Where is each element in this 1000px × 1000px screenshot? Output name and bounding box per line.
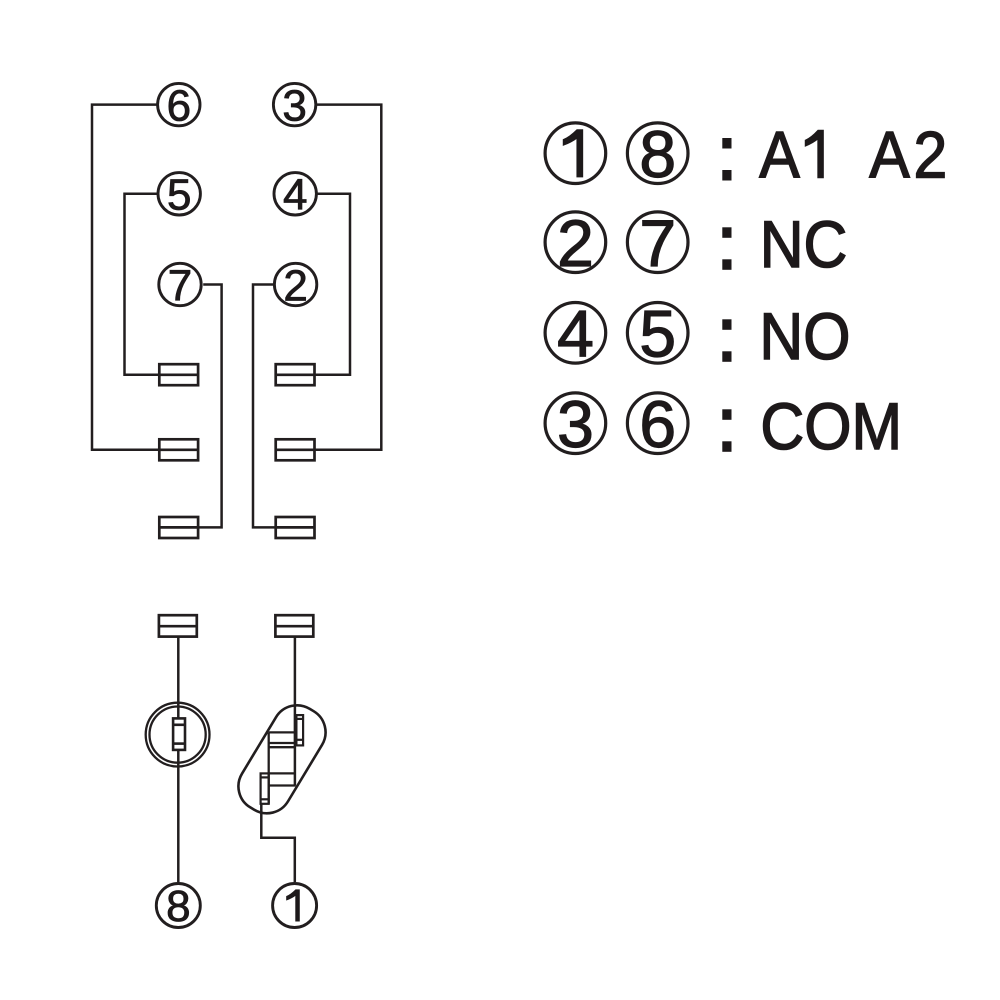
pin 3 [273, 81, 315, 130]
wire pin4 to NO-right contact [315, 194, 350, 375]
armature crossbar B [269, 742, 296, 744]
coil terminal contact (pin 1 side) [275, 615, 313, 636]
svg-text:NO: NO [759, 301, 850, 374]
svg-text:7: 7 [639, 206, 676, 280]
legend pin 7 badge [627, 206, 688, 280]
wire contact to armature [294, 637, 297, 786]
NC contact left (terminal 7) [159, 517, 198, 538]
NC contact right (terminal 2) [276, 517, 315, 538]
legend pin 8 badge [627, 117, 688, 191]
wire pin6 to COM-left contact [92, 105, 158, 450]
svg-text:COM: COM [760, 391, 902, 464]
pin 8 [156, 882, 200, 931]
svg-text:NC: NC [760, 209, 848, 282]
armature crossbar C [269, 772, 296, 774]
pin 6 [158, 81, 200, 130]
NO contact left (terminal 5) [159, 364, 198, 385]
svg-text:A: A [759, 119, 800, 192]
armature crossbar B2 [269, 746, 296, 748]
svg-text:6: 6 [639, 387, 676, 461]
NO contact right (terminal 4) [276, 364, 315, 385]
svg-text:5: 5 [639, 296, 676, 370]
coil terminal contact (pin 8 side) [159, 615, 197, 636]
legend row 2 label NC [722, 209, 847, 282]
svg-text:2: 2 [557, 206, 594, 280]
legend row 3 label NO [722, 301, 850, 374]
wire pin5 to NO-left contact [125, 194, 159, 375]
legend pin 2 badge [545, 206, 606, 280]
svg-text:A2: A2 [869, 119, 951, 192]
legend pin 3 badge [545, 387, 606, 461]
svg-text:5: 5 [167, 171, 191, 220]
svg-text:6: 6 [167, 81, 191, 130]
svg-text:8: 8 [166, 882, 190, 931]
coil fuse element [173, 718, 185, 750]
svg-text:4: 4 [557, 296, 594, 370]
wire pin2 to NC-right contact [253, 285, 275, 528]
svg-text:3: 3 [282, 81, 306, 130]
wire contact to coil [177, 637, 180, 719]
pin 2 [274, 261, 316, 310]
legend row 1 label A1 A2 [722, 119, 951, 192]
svg-text:8: 8 [639, 117, 676, 191]
wire coil to pin 8 [177, 750, 180, 882]
svg-text:3: 3 [557, 387, 594, 461]
wire armature to pin 1 [261, 804, 295, 882]
armature pin plate top (pin 1 side upper) [296, 715, 303, 745]
pin 7 [159, 261, 201, 310]
armature crossbar A [269, 731, 296, 733]
svg-text:4: 4 [283, 171, 307, 220]
pin 5 [158, 171, 200, 220]
wire pin7 to NC-left contact [199, 285, 222, 528]
legend pin 4 badge [545, 296, 606, 370]
armature crossbar D [269, 784, 296, 786]
armature pin plate bottom (lower) [261, 773, 269, 803]
svg-text:2: 2 [283, 261, 307, 310]
svg-text:7: 7 [168, 261, 192, 310]
legend row 4 label COM [722, 391, 902, 464]
legend pin 6 badge [627, 387, 688, 461]
coil K1 (double circle) [146, 703, 210, 767]
legend pin 1 badge [545, 123, 606, 184]
armature outline (rotated stadium) [229, 696, 334, 822]
COM contact right (terminal 3) [276, 439, 315, 460]
armature left rail [268, 732, 270, 803]
legend pin 5 badge [627, 296, 688, 370]
pin 1 [273, 884, 317, 928]
COM contact left (terminal 6) [159, 439, 198, 460]
pin 4 [274, 171, 316, 220]
wire pin3 to COM-right contact [315, 105, 381, 450]
